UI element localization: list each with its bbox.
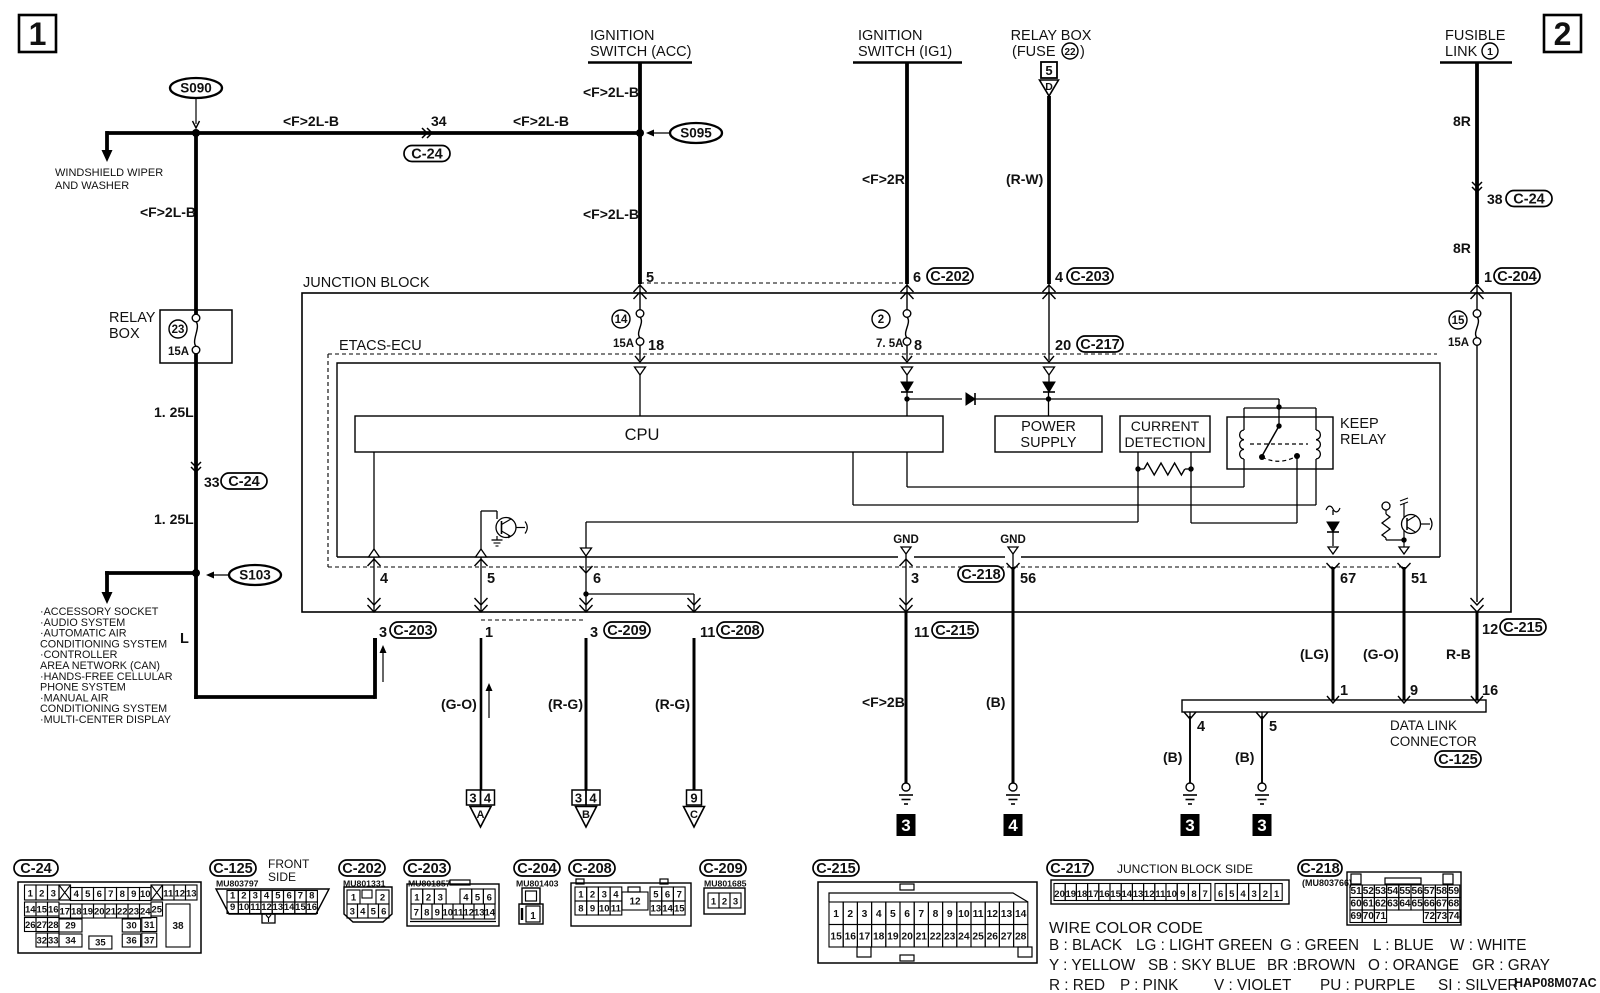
svg-text:17: 17 [1088, 889, 1099, 900]
svg-text:1: 1 [29, 16, 47, 52]
svg-text:BR :BROWN: BR :BROWN [1267, 957, 1355, 974]
svg-text:(G-O): (G-O) [1363, 646, 1399, 662]
svg-text:23: 23 [172, 324, 185, 336]
wire: relay contact to current detection [1296, 456, 1298, 523]
svg-text:C-203: C-203 [393, 623, 433, 639]
svg-text:54: 54 [1387, 886, 1399, 897]
svg-text:19: 19 [82, 907, 93, 918]
diode D-IG1 [906, 375, 908, 382]
svg-text:(B): (B) [986, 694, 1005, 710]
svg-text:4: 4 [360, 907, 366, 918]
svg-text:12: 12 [1144, 889, 1155, 900]
svg-text:1: 1 [833, 909, 839, 920]
junction block outline [302, 293, 1511, 612]
node S103 junction dot [192, 569, 200, 577]
ignition switch (ACC) header [588, 28, 692, 63]
relay top bar [1244, 407, 1316, 409]
svg-text:19: 19 [887, 931, 899, 942]
svg-text:2: 2 [380, 893, 385, 904]
svg-text:10: 10 [599, 904, 610, 915]
svg-text:15A: 15A [613, 338, 634, 350]
svg-text:26: 26 [987, 931, 999, 942]
relay coil left [1240, 430, 1244, 440]
svg-text:C-217: C-217 [1050, 861, 1090, 877]
connector C-204 detail [514, 860, 560, 924]
svg-text:3: 3 [379, 625, 387, 641]
svg-text:3: 3 [862, 909, 868, 920]
svg-text:5: 5 [1269, 719, 1277, 735]
wire: ACC vertical to S095 junction [638, 63, 642, 285]
svg-text:S103: S103 [239, 568, 271, 583]
svg-text:2: 2 [722, 897, 727, 908]
svg-text:4: 4 [613, 890, 619, 901]
svg-text:15: 15 [1110, 889, 1121, 900]
svg-text:31: 31 [144, 920, 155, 931]
wire: horizontal bus S090 to S095 [106, 131, 641, 135]
svg-text:55: 55 [1399, 886, 1411, 897]
dashed link pin1 to C-209 [481, 619, 586, 621]
svg-text:8: 8 [1191, 889, 1196, 900]
wire: pin11 C-215 F2B down to ground [905, 612, 908, 783]
svg-text:11: 11 [250, 902, 261, 913]
pin 3 GND exit [905, 554, 907, 612]
wire: left drop to windshield wiper [105, 131, 109, 152]
svg-text:(R-W): (R-W) [1006, 171, 1043, 187]
wire: CPU pin4 output [373, 452, 375, 549]
svg-text:(FUSE: (FUSE [1012, 44, 1056, 60]
svg-text:15: 15 [1452, 315, 1465, 327]
node ACC bus junction dot [636, 129, 644, 137]
svg-text:9: 9 [131, 889, 136, 900]
pin 67 exit [1327, 563, 1340, 570]
svg-text:8: 8 [309, 891, 314, 902]
connector C-215 detail [813, 860, 1037, 963]
svg-text:25: 25 [972, 931, 984, 942]
svg-text:21: 21 [916, 931, 928, 942]
diode D67 [1326, 506, 1340, 554]
svg-text:51: 51 [1351, 886, 1363, 897]
label accessory systems list [40, 606, 173, 726]
svg-text:7: 7 [414, 908, 419, 919]
svg-text:1: 1 [414, 893, 420, 904]
svg-text:73: 73 [1436, 911, 1448, 922]
svg-text:11: 11 [973, 909, 984, 920]
svg-text:B : BLACK: B : BLACK [1049, 937, 1123, 954]
svg-text:20: 20 [901, 931, 913, 942]
svg-text:C-24: C-24 [20, 861, 51, 877]
DLC exit arrows [1189, 712, 1191, 716]
svg-text:15: 15 [674, 904, 685, 915]
svg-text:9: 9 [590, 904, 595, 915]
svg-text:(R-G): (R-G) [548, 696, 583, 712]
wire: pin3 C-209 (R-G) down [585, 638, 588, 790]
svg-text:56: 56 [1412, 886, 1424, 897]
svg-text:27: 27 [36, 920, 47, 931]
svg-text:4: 4 [380, 571, 388, 587]
svg-text:5: 5 [653, 890, 659, 901]
svg-text:(G-O): (G-O) [441, 696, 477, 712]
svg-text:<F>2L-B: <F>2L-B [283, 113, 339, 129]
svg-text:LG : LIGHT GREEN: LG : LIGHT GREEN [1136, 937, 1273, 954]
svg-text:13: 13 [273, 902, 284, 913]
pin 12 / C-215 bottom label [1482, 619, 1546, 638]
svg-text:3: 3 [438, 893, 443, 904]
svg-text:3: 3 [901, 816, 910, 835]
pin 11 / C-215 bottom label [914, 622, 978, 641]
svg-text:4: 4 [1240, 889, 1246, 900]
svg-text:3: 3 [575, 791, 582, 806]
svg-text:14: 14 [25, 905, 36, 916]
connector C-217 detail [1047, 860, 1289, 904]
resistor R current detection [1144, 463, 1185, 475]
svg-text:5: 5 [475, 893, 481, 904]
page number box 2 [1544, 15, 1581, 52]
svg-text:4: 4 [1197, 719, 1205, 735]
svg-text:51: 51 [1411, 571, 1427, 587]
svg-text:C-218: C-218 [961, 567, 1001, 583]
ground G3 [1186, 783, 1194, 791]
svg-text:3: 3 [590, 625, 598, 641]
svg-text:1: 1 [485, 625, 493, 641]
svg-text:4: 4 [264, 891, 270, 902]
svg-text:6: 6 [487, 893, 492, 904]
page ref 3 (DLC pin5) [1253, 814, 1272, 836]
DLC pin4 wire [1189, 716, 1191, 783]
CPU box [355, 416, 943, 452]
connector label C-24 top [404, 146, 450, 162]
svg-text:A: A [477, 809, 485, 821]
pin 51 exit [1398, 563, 1411, 570]
svg-text:10: 10 [140, 889, 151, 900]
GND label right [1000, 534, 1026, 554]
svg-text:C-202: C-202 [930, 269, 970, 285]
svg-text:·MULTI-CENTER DISPLAY: ·MULTI-CENTER DISPLAY [40, 714, 171, 726]
node pin6 branch [583, 591, 588, 596]
svg-text:8: 8 [914, 338, 922, 354]
svg-text:R-B: R-B [1446, 646, 1471, 662]
svg-text:C-24: C-24 [1513, 192, 1544, 208]
svg-text:W : WHITE: W : WHITE [1450, 937, 1526, 954]
svg-text:IGNITION: IGNITION [590, 28, 654, 44]
ground G2 [1009, 783, 1017, 791]
svg-text:57: 57 [1424, 886, 1436, 897]
svg-text:P : PINK: P : PINK [1120, 977, 1179, 993]
svg-text:8R: 8R [1453, 240, 1471, 256]
svg-text:16: 16 [48, 905, 59, 916]
svg-text:71: 71 [1375, 911, 1387, 922]
svg-text:6: 6 [665, 890, 670, 901]
svg-text:6: 6 [913, 270, 921, 286]
svg-text:16: 16 [845, 931, 857, 942]
wire: pin1 (G-O) down [480, 638, 483, 790]
svg-text:10: 10 [1166, 889, 1177, 900]
svg-text:GND: GND [1000, 534, 1026, 546]
svg-text:SI : SILVER: SI : SILVER [1438, 977, 1518, 993]
pin 6 / C-202 label [913, 268, 973, 286]
svg-text:63: 63 [1387, 899, 1399, 910]
svg-text:3: 3 [602, 890, 607, 901]
svg-text:6: 6 [381, 907, 386, 918]
svg-text:MU801685: MU801685 [704, 879, 747, 889]
fusible link header [1440, 28, 1512, 63]
svg-text:9: 9 [947, 909, 953, 920]
svg-text:12: 12 [1482, 622, 1498, 638]
svg-text:5: 5 [646, 270, 654, 286]
svg-text:C-215: C-215 [935, 623, 975, 639]
svg-text:MU803797: MU803797 [216, 879, 259, 889]
data link connector box [1182, 700, 1486, 712]
svg-text:1: 1 [578, 890, 584, 901]
svg-text:(LG): (LG) [1300, 646, 1329, 662]
svg-text:14: 14 [1122, 889, 1133, 900]
svg-text:56: 56 [1020, 571, 1036, 587]
svg-text:67: 67 [1340, 571, 1356, 587]
pin 3 / C-209 bottom label [590, 622, 650, 641]
svg-text:35: 35 [95, 938, 106, 949]
transistor Q1 near pin5 [481, 511, 527, 549]
svg-text:(MU803766): (MU803766) [1302, 878, 1352, 888]
svg-text:4: 4 [1008, 816, 1018, 835]
svg-text:18: 18 [1077, 889, 1088, 900]
wire marker 38 / C-24 [1472, 182, 1503, 207]
svg-text:C-204: C-204 [517, 861, 557, 877]
svg-text:28: 28 [48, 920, 59, 931]
svg-text:34: 34 [65, 936, 76, 947]
svg-text:36: 36 [126, 936, 137, 947]
svg-text:8: 8 [933, 909, 939, 920]
svg-text:15: 15 [36, 905, 47, 916]
svg-text:10: 10 [239, 902, 250, 913]
svg-text:8: 8 [578, 904, 583, 915]
svg-text:4: 4 [74, 889, 80, 900]
svg-text:HAP08M07AC: HAP08M07AC [1514, 976, 1597, 990]
svg-text:FUSIBLE: FUSIBLE [1445, 28, 1506, 44]
page ref 3 (left) [897, 814, 916, 836]
svg-text:11: 11 [700, 625, 715, 641]
svg-text:11: 11 [611, 904, 622, 915]
pin 5 exit [480, 557, 482, 612]
svg-text:12: 12 [174, 889, 185, 900]
svg-text:11: 11 [453, 908, 464, 919]
svg-text:3: 3 [469, 791, 476, 806]
svg-text:L: L [180, 631, 189, 647]
transistor Q2 output 51 [1382, 498, 1432, 554]
splice S095 [646, 123, 722, 143]
connector C-24 detail [14, 860, 201, 953]
label KEEP RELAY [1340, 416, 1387, 448]
svg-text:21: 21 [105, 907, 116, 918]
svg-text:C-202: C-202 [342, 861, 382, 877]
svg-text:RELAY: RELAY [109, 310, 156, 326]
svg-text:C-217: C-217 [1080, 337, 1120, 353]
svg-text:18: 18 [873, 931, 885, 942]
svg-text:(B): (B) [1235, 749, 1254, 765]
svg-text:22: 22 [117, 907, 128, 918]
svg-text:6: 6 [287, 891, 292, 902]
relay box (fuse 22) header [1011, 28, 1092, 60]
svg-text:4: 4 [484, 791, 492, 806]
svg-text:15: 15 [830, 931, 842, 942]
svg-text:67: 67 [1436, 899, 1448, 910]
svg-text:6: 6 [904, 909, 910, 920]
svg-text:14: 14 [662, 904, 673, 915]
ignition switch (IG1) header [853, 28, 962, 63]
CURRENT DETECTION box [1120, 416, 1210, 452]
page ref 3 (DLC pin4) [1181, 814, 1200, 836]
svg-text:2: 2 [1554, 16, 1572, 52]
svg-text:S090: S090 [180, 81, 212, 96]
svg-text:<F>2R: <F>2R [862, 171, 905, 187]
svg-text:8: 8 [120, 889, 125, 900]
svg-text:24: 24 [958, 931, 970, 942]
svg-text:5: 5 [85, 889, 91, 900]
svg-text:15A: 15A [168, 346, 189, 358]
ref box 3|4 triangle B [572, 790, 600, 827]
svg-text:<F>2L-B: <F>2L-B [513, 113, 569, 129]
svg-text:1: 1 [711, 897, 717, 908]
splice S103 [206, 565, 281, 585]
svg-text:10: 10 [958, 909, 970, 920]
wire: S090 vertical down to relay box [194, 133, 198, 314]
svg-text:32: 32 [36, 936, 47, 947]
DLC pin5 wire [1261, 716, 1263, 783]
splice S090 [170, 78, 222, 128]
ref box 9 triangle C [684, 790, 705, 827]
svg-text:70: 70 [1363, 911, 1375, 922]
svg-text:13: 13 [651, 904, 662, 915]
svg-text:14: 14 [284, 902, 295, 913]
svg-text:60: 60 [1351, 899, 1363, 910]
svg-text:C-203: C-203 [1070, 269, 1110, 285]
svg-text:13: 13 [186, 889, 197, 900]
svg-text:65: 65 [1412, 899, 1424, 910]
svg-text:C-209: C-209 [703, 861, 743, 877]
svg-text:12: 12 [987, 909, 999, 920]
svg-text:C-125: C-125 [1438, 752, 1478, 768]
svg-text:4: 4 [463, 893, 469, 904]
wire: S103 to accessory list arrow [105, 571, 196, 575]
svg-text:RELAY: RELAY [1340, 432, 1387, 448]
entry arrows into junction block [634, 285, 647, 292]
svg-text:GND: GND [893, 534, 919, 546]
svg-text:5: 5 [1229, 889, 1235, 900]
relay feed from power bus [1278, 399, 1280, 407]
svg-text:9: 9 [1180, 889, 1185, 900]
fuse 15 15A [1448, 310, 1481, 349]
svg-text:7: 7 [1203, 889, 1208, 900]
POWER SUPPLY box [995, 416, 1102, 452]
svg-text:72: 72 [1424, 911, 1436, 922]
svg-text:LINK: LINK [1445, 44, 1478, 60]
svg-text:1: 1 [230, 891, 236, 902]
svg-text:16: 16 [306, 902, 317, 913]
svg-text:(R-G): (R-G) [655, 696, 690, 712]
svg-text:<F>2L-B: <F>2L-B [583, 206, 639, 222]
connector C-208 detail [569, 860, 691, 926]
node IG1 diode junction [904, 396, 909, 401]
svg-text:PU : PURPLE: PU : PURPLE [1320, 977, 1415, 993]
svg-text:SB : SKY BLUE: SB : SKY BLUE [1148, 957, 1256, 974]
triangle pin6 [581, 548, 592, 556]
svg-text:18: 18 [71, 907, 82, 918]
svg-text:WIRE COLOR CODE: WIRE COLOR CODE [1049, 920, 1203, 937]
svg-text:3: 3 [733, 897, 738, 908]
svg-text:C-125: C-125 [213, 861, 253, 877]
connector C-218 detail [1298, 860, 1461, 925]
svg-text:11: 11 [1155, 889, 1166, 900]
svg-text:2: 2 [590, 890, 595, 901]
connector C-125 detail [210, 857, 329, 923]
svg-text:3: 3 [911, 571, 919, 587]
svg-text:17: 17 [59, 907, 70, 918]
svg-text:FRONT: FRONT [268, 857, 310, 871]
pin 1 / C-204 label [1484, 268, 1540, 286]
ETACS dashed boundary [328, 353, 1437, 355]
ground G4 [1258, 783, 1266, 791]
svg-text:24: 24 [140, 907, 151, 918]
svg-text:22: 22 [930, 931, 942, 942]
svg-text:JUNCTION BLOCK SIDE: JUNCTION BLOCK SIDE [1117, 862, 1253, 876]
svg-text:25: 25 [151, 905, 162, 916]
pin 4 exit [373, 557, 375, 612]
svg-text:C-24: C-24 [411, 147, 442, 163]
pin 6 exit [585, 556, 587, 612]
wire: CPU to right coil [1315, 459, 1317, 505]
svg-text:61: 61 [1363, 899, 1375, 910]
svg-text:1: 1 [530, 911, 536, 922]
svg-text:3: 3 [1185, 816, 1194, 835]
svg-text:14: 14 [1015, 909, 1027, 920]
svg-text:62: 62 [1375, 899, 1387, 910]
svg-text:13: 13 [1001, 909, 1013, 920]
wire: ACC into CPU [639, 375, 641, 416]
svg-text:15A: 15A [1448, 337, 1469, 349]
svg-text:11: 11 [163, 889, 174, 900]
svg-text:O : ORANGE: O : ORANGE [1368, 957, 1459, 974]
svg-text:CONNECTOR: CONNECTOR [1390, 734, 1477, 749]
svg-text:9: 9 [230, 902, 235, 913]
svg-text:1. 25L: 1. 25L [154, 404, 194, 420]
svg-text:23: 23 [944, 931, 956, 942]
svg-text:6: 6 [1218, 889, 1223, 900]
svg-text:22: 22 [1064, 47, 1076, 58]
pin 11 / C-208 bottom label [700, 622, 763, 641]
svg-text:52: 52 [1363, 886, 1375, 897]
svg-text:16: 16 [1482, 683, 1498, 699]
ground G1 [902, 783, 910, 791]
svg-text:ETACS-ECU: ETACS-ECU [339, 338, 422, 354]
svg-text:38: 38 [172, 921, 184, 932]
connector C-203 detail [404, 860, 499, 926]
svg-text:23: 23 [128, 907, 139, 918]
direction arrow up beside pin1 wire [488, 688, 490, 718]
svg-text:38: 38 [1487, 191, 1503, 207]
svg-text:9: 9 [1410, 683, 1418, 699]
svg-text:S095: S095 [680, 126, 712, 141]
svg-text:<F>2L-B: <F>2L-B [140, 204, 196, 220]
svg-text:DETECTION: DETECTION [1125, 434, 1206, 450]
svg-text:12: 12 [629, 897, 641, 908]
pin 4 / C-203 label [1055, 268, 1113, 286]
svg-text:14: 14 [615, 314, 628, 326]
svg-text:3: 3 [51, 889, 56, 900]
wire: 12 C-215 down to DLC [1476, 612, 1479, 700]
wire: pin3 C-203 down (L wire) [373, 638, 377, 660]
svg-text:4: 4 [589, 791, 597, 806]
svg-text:(B): (B) [1163, 749, 1182, 765]
wire: power bus y399 with series diode [907, 398, 962, 400]
svg-text:SIDE: SIDE [268, 870, 296, 884]
